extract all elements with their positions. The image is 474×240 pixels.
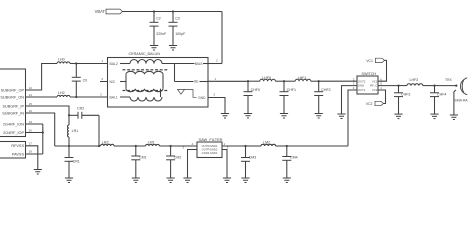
ground for CM2 bbox=[167, 177, 175, 179]
wire VC2 to switch bbox=[378, 90, 386, 104]
svg-text:GND3 GND4: GND3 GND4 bbox=[202, 151, 218, 155]
wire switch RF_C out bbox=[378, 85, 399, 87]
wire pin15 SUBGRF_IP down through LR1 bbox=[26, 106, 70, 125]
svg-text:SWITCH: SWITCH bbox=[362, 72, 377, 76]
ground for CHF2 bbox=[315, 113, 323, 115]
ground for C2 bbox=[150, 45, 158, 47]
inductor LH0 bbox=[57, 62, 70, 64]
svg-text:6: 6 bbox=[102, 77, 104, 81]
svg-text:C0: C0 bbox=[83, 79, 88, 83]
svg-text:CR1: CR1 bbox=[73, 159, 80, 163]
capacitor CR2 series bbox=[68, 114, 70, 116]
svg-text:17: 17 bbox=[29, 142, 33, 146]
svg-text:TRX: TRX bbox=[445, 78, 453, 82]
svg-text:220nF: 220nF bbox=[156, 32, 167, 36]
capacitor C3 100pF bbox=[172, 10, 174, 12]
svg-text:2G4RF_ION: 2G4RF_ION bbox=[3, 122, 24, 126]
SAW filter U4 bbox=[197, 142, 222, 158]
svg-text:SUBGRF_ON: SUBGRF_ON bbox=[0, 95, 24, 99]
svg-text:OUTN/GND1: OUTN/GND1 bbox=[202, 144, 218, 148]
svg-text:15: 15 bbox=[29, 102, 33, 106]
ground for C3 bbox=[169, 45, 177, 47]
wire balun SE pin 1 to filter bbox=[208, 80, 248, 82]
svg-text:GND: GND bbox=[198, 96, 206, 100]
wire SMA shell to ground bbox=[454, 90, 456, 115]
ground for CHF1 bbox=[280, 113, 288, 115]
capacitor C0 across OP/ON bbox=[75, 62, 77, 64]
control flag VC1 bbox=[376, 58, 385, 62]
IC U1 EFR32 RF pins (partial, left edge) bbox=[0, 69, 26, 137]
svg-text:1: 1 bbox=[215, 77, 217, 81]
svg-text:CHF0: CHF0 bbox=[251, 88, 260, 92]
ground for CHF3 bbox=[394, 113, 402, 115]
svg-text:GND: GND bbox=[358, 84, 364, 88]
wire SAW OUTP to ground bbox=[188, 150, 198, 179]
svg-text:VC2: VC2 bbox=[372, 88, 378, 92]
ground for CHF0 bbox=[244, 113, 252, 115]
inductor LH2 bbox=[57, 95, 70, 97]
capacitor CHF2 bbox=[318, 80, 320, 82]
svg-text:VC1: VC1 bbox=[366, 59, 373, 63]
svg-text:14: 14 bbox=[29, 93, 33, 97]
balun primary winding top bbox=[120, 63, 130, 65]
wire pin17 RFVSS to ground bbox=[26, 146, 38, 170]
svg-text:16: 16 bbox=[29, 109, 33, 113]
wire balun GND pin 5 to ground bbox=[208, 98, 225, 114]
svg-text:BIAS: BIAS bbox=[195, 62, 203, 66]
svg-text:CM1: CM1 bbox=[139, 156, 147, 160]
inductor LR2 bbox=[101, 144, 115, 146]
svg-text:20: 20 bbox=[29, 128, 33, 132]
svg-text:LM2: LM2 bbox=[263, 141, 270, 145]
capacitor C2 220nF bbox=[153, 10, 155, 12]
svg-text:CHF2: CHF2 bbox=[321, 88, 330, 92]
ground for switch bbox=[337, 113, 345, 115]
svg-text:4: 4 bbox=[102, 59, 104, 63]
wire low-band rail up to switch OUT1 bbox=[348, 90, 357, 146]
svg-text:2: 2 bbox=[216, 59, 218, 63]
control flag VC2 bbox=[375, 101, 384, 105]
svg-text:CERAMIC_BALUN: CERAMIC_BALUN bbox=[129, 52, 161, 56]
ground for CM4 bbox=[283, 177, 291, 179]
svg-text:SUBGRF_IP: SUBGRF_IP bbox=[2, 104, 24, 108]
svg-text:1: 1 bbox=[224, 142, 226, 146]
wire VC1 to switch bbox=[378, 60, 387, 81]
balun coupling core dashes bbox=[123, 69, 126, 71]
svg-text:100pF: 100pF bbox=[175, 32, 186, 36]
svg-text:CHF1: CHF1 bbox=[287, 88, 296, 92]
svg-text:VC2: VC2 bbox=[366, 102, 373, 106]
ground for CHF4 bbox=[430, 113, 438, 115]
balun middle winding loop from N/C bbox=[120, 81, 126, 83]
svg-text:19: 19 bbox=[29, 120, 33, 124]
svg-text:OUTP/GND2: OUTP/GND2 bbox=[202, 148, 218, 152]
balun internal tap to SE bbox=[174, 64, 176, 82]
svg-text:OUT1: OUT1 bbox=[358, 88, 366, 92]
svg-text:BAL1: BAL1 bbox=[110, 95, 118, 99]
svg-text:CHF3: CHF3 bbox=[401, 92, 410, 96]
ground for SAW right bbox=[223, 177, 231, 179]
svg-text:OUT2: OUT2 bbox=[358, 79, 366, 83]
wire VBAT rail bbox=[123, 11, 223, 13]
ground for balun bbox=[221, 113, 229, 115]
capacitor CHF0 bbox=[247, 80, 249, 82]
capacitor CM3 bbox=[244, 145, 246, 147]
svg-text:LH0: LH0 bbox=[58, 58, 65, 62]
svg-text:13: 13 bbox=[29, 86, 33, 90]
svg-text:4: 4 bbox=[192, 142, 194, 146]
capacitor CM1 bbox=[135, 145, 137, 147]
svg-text:CM3: CM3 bbox=[249, 156, 257, 160]
svg-text:N/C: N/C bbox=[110, 80, 116, 84]
inductor LHF0 bbox=[248, 80, 260, 82]
wire pin14 SUBGRF_ON to LH2 bbox=[26, 96, 58, 98]
svg-text:LR2: LR2 bbox=[102, 141, 109, 145]
svg-text:C2: C2 bbox=[156, 17, 161, 21]
svg-text:SE: SE bbox=[194, 80, 199, 84]
svg-text:LR1: LR1 bbox=[72, 129, 79, 133]
wire vertical 2G4RF tie bbox=[42, 124, 44, 154]
balun secondary winding bottom bbox=[120, 96, 130, 98]
svg-text:18: 18 bbox=[29, 150, 33, 154]
svg-text:CM4: CM4 bbox=[290, 156, 298, 160]
svg-text:SUBGRF_IN: SUBGRF_IN bbox=[2, 111, 24, 115]
wire VBAT to balun BIAS pin 2 bbox=[221, 12, 223, 64]
ground for CM1 bbox=[132, 177, 140, 179]
svg-text:5: 5 bbox=[214, 93, 216, 97]
capacitor CHF4 bbox=[433, 85, 435, 87]
capacitor CR1 bbox=[68, 145, 70, 147]
svg-text:SUBGRF_OP: SUBGRF_OP bbox=[1, 88, 25, 92]
svg-text:LHF1: LHF1 bbox=[298, 76, 307, 80]
svg-text:BAL2: BAL2 bbox=[110, 62, 118, 66]
wire pin19 2G4RF_ION down bbox=[26, 123, 43, 125]
svg-text:CR2: CR2 bbox=[77, 107, 84, 111]
RF switch U3 bbox=[357, 76, 378, 94]
balun internal shield arrow bbox=[178, 90, 185, 95]
wire switch GND to ground bbox=[342, 86, 358, 114]
capacitor CHF1 bbox=[283, 80, 285, 82]
wire CR2 down to low-band rail bbox=[98, 115, 100, 146]
wire CM4 to switch OUT1 riser bbox=[287, 145, 348, 147]
inductor LM2 bbox=[246, 145, 262, 147]
inductor LM1 bbox=[146, 144, 160, 146]
capacitor CHF3 bbox=[397, 85, 399, 87]
wire pin20 2G4RF_IOP bbox=[26, 132, 43, 134]
wire SAW IN side bbox=[222, 145, 246, 147]
svg-text:VC1: VC1 bbox=[372, 79, 378, 83]
capacitor CM2 bbox=[170, 145, 172, 147]
wire CHF2 to switch OUT2 bbox=[319, 80, 357, 82]
IC U1 ground pins section bbox=[0, 142, 26, 159]
wire pin13 SUBGRF_OP to LH0 bbox=[26, 64, 58, 91]
svg-text:3: 3 bbox=[100, 93, 102, 97]
svg-text:CM2: CM2 bbox=[174, 156, 182, 160]
ground for SMA bbox=[450, 114, 458, 116]
ground for SAW left bbox=[183, 177, 191, 179]
wire LH2 to balun BAL1 bbox=[70, 96, 108, 98]
wire SAW GND2 to ground bbox=[222, 150, 227, 179]
svg-text:LM1: LM1 bbox=[148, 141, 155, 145]
balun pin 6 N/C stub bbox=[100, 81, 108, 83]
capacitor CM4 bbox=[286, 145, 288, 147]
inductor LHF2 bbox=[399, 85, 408, 87]
wire pin18 PAVSS bbox=[26, 153, 43, 155]
wire to SMA connector bbox=[435, 85, 457, 87]
svg-text:LH2: LH2 bbox=[58, 91, 65, 95]
svg-text:C3: C3 bbox=[175, 17, 180, 21]
ground for CM3 bbox=[241, 177, 249, 179]
svg-text:PAVSS: PAVSS bbox=[12, 152, 25, 156]
svg-text:CHF4: CHF4 bbox=[437, 92, 446, 96]
svg-text:RF_C: RF_C bbox=[370, 84, 377, 88]
svg-text:SMA-RA: SMA-RA bbox=[455, 98, 469, 102]
svg-text:RFVSS: RFVSS bbox=[11, 144, 24, 148]
svg-text:SAW_FILTER: SAW_FILTER bbox=[199, 137, 223, 142]
wire LH0 to balun BAL2 bbox=[70, 63, 108, 65]
inductor LR1 bbox=[68, 125, 70, 137]
svg-text:VBAT: VBAT bbox=[95, 9, 106, 14]
ceramic balun U2 bbox=[108, 58, 209, 108]
wire low-band rail bbox=[55, 145, 101, 147]
inductor LHF1 bbox=[284, 80, 295, 82]
ground for RFVSS bbox=[34, 169, 42, 171]
svg-text:LHF0: LHF0 bbox=[262, 76, 271, 80]
wire pin16 SUBGRF_IN down to rail bbox=[26, 113, 55, 146]
ground for CR1 bbox=[65, 177, 73, 179]
svg-text:LHF2: LHF2 bbox=[410, 78, 419, 82]
power flag VBAT bbox=[106, 9, 123, 14]
svg-text:2G4RF_IOP: 2G4RF_IOP bbox=[3, 131, 24, 135]
